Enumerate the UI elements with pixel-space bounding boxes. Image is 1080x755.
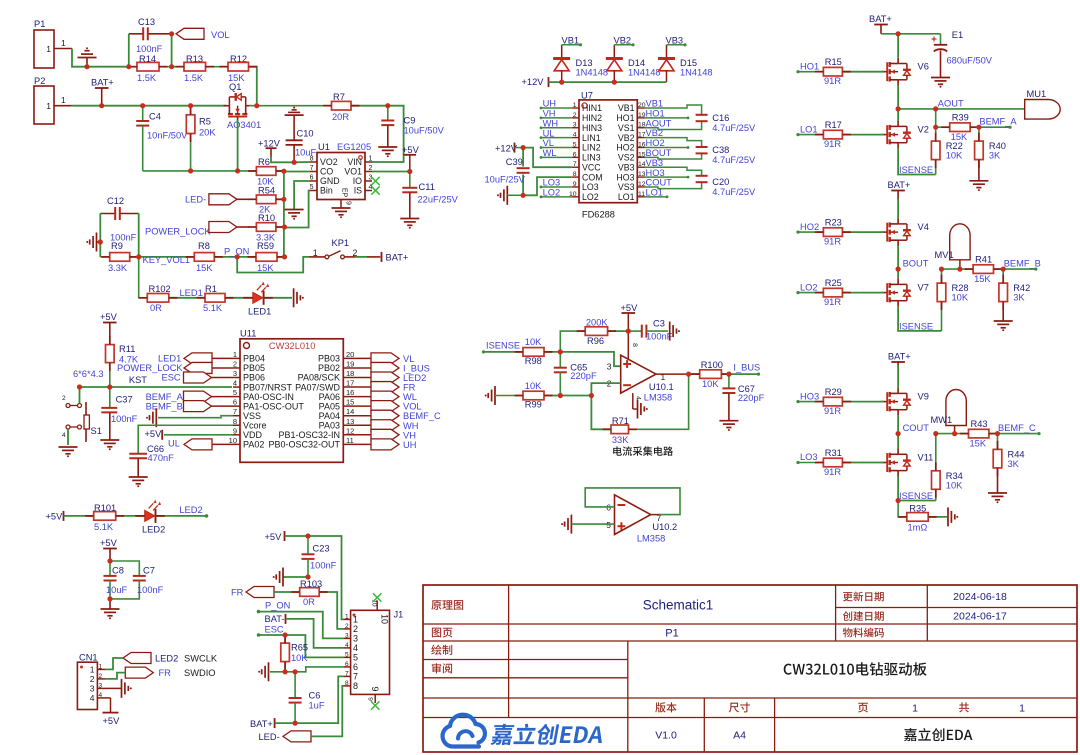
junction COUT node <box>897 433 899 435</box>
svg-text:+5V: +5V <box>265 532 283 542</box>
junction MV1 node <box>959 268 961 270</box>
wire V2 source to ISENSE <box>898 149 936 175</box>
svg-text:VH: VH <box>543 109 556 119</box>
svg-text:IS: IS <box>354 186 362 196</box>
resistor R96 (200K feedback) <box>560 331 585 352</box>
op-amp U10.2 output stub <box>651 514 660 516</box>
svg-text:1: 1 <box>345 613 349 620</box>
diode D15 1N4148 <box>658 57 675 60</box>
svg-text:10K: 10K <box>702 379 719 389</box>
resistor R39 15K <box>950 123 970 132</box>
wire KEY_VOL1 net <box>130 256 195 258</box>
wire ISENSE to R98 <box>484 351 524 353</box>
wire KST net <box>80 386 233 388</box>
svg-text:11: 11 <box>638 191 645 198</box>
junction C23 gnd node <box>307 576 309 578</box>
pin U11.14 PA04 <box>343 415 371 417</box>
svg-text:U10.2: U10.2 <box>652 522 677 532</box>
connector MW1 (motor W) <box>946 390 966 426</box>
svg-text:CN1: CN1 <box>79 653 98 663</box>
wire BAT+ to J1.7 <box>275 676 344 723</box>
resistor R42 3K <box>1002 269 1004 283</box>
net flag POWER_LOCK at U11 pin 2 <box>212 367 233 369</box>
svg-text:91R: 91R <box>824 406 841 416</box>
svg-text:1N4148: 1N4148 <box>680 67 713 77</box>
svg-text:R34: R34 <box>946 471 963 481</box>
svg-text:LED2: LED2 <box>155 654 178 664</box>
svg-text:LIN3: LIN3 <box>582 153 601 163</box>
svg-text:VB1: VB1 <box>618 103 635 113</box>
pin CN1.2 <box>97 678 105 680</box>
svg-text:BAT+: BAT+ <box>250 719 273 729</box>
pin J1.8 <box>343 685 350 687</box>
connector CN1 <box>77 662 97 709</box>
svg-text:V6: V6 <box>918 62 929 72</box>
svg-text:16: 16 <box>346 388 354 397</box>
resistor R99 <box>494 386 496 405</box>
svg-text:R71: R71 <box>612 416 629 426</box>
IC U11 CW32L010 <box>240 339 343 463</box>
svg-text:5: 5 <box>310 184 314 191</box>
svg-text:R15: R15 <box>825 57 842 67</box>
svg-text:2: 2 <box>345 623 349 630</box>
svg-text:P1: P1 <box>34 19 45 29</box>
net flag UL at U11 PA02 <box>212 443 233 445</box>
resistor R43 15K <box>969 429 989 438</box>
svg-text:5: 5 <box>345 651 349 658</box>
svg-text:VIN: VIN <box>347 157 362 167</box>
bottom rail (gate bias) <box>143 170 257 172</box>
svg-text:VDD: VDD <box>243 430 263 440</box>
net flag LED2 at CN1 <box>123 653 151 664</box>
svg-text:3K: 3K <box>1013 293 1025 303</box>
pin U11.17 PA07/SWD <box>343 386 371 388</box>
junction BAT+ node <box>101 105 103 107</box>
svg-text:3: 3 <box>99 682 103 689</box>
svg-text:VS3: VS3 <box>618 182 635 192</box>
svg-text:R103: R103 <box>300 579 322 589</box>
svg-text:680uF/50V: 680uF/50V <box>947 56 993 66</box>
svg-text:14: 14 <box>346 407 354 416</box>
capacitor C23 <box>307 536 309 554</box>
svg-text:20R: 20R <box>332 112 349 122</box>
junction C8/C7 top node <box>109 560 111 562</box>
net flag FR <box>371 382 399 393</box>
wire CN1.4 to +5V <box>105 697 111 699</box>
wire CN1.3 to gnd <box>105 687 121 689</box>
ground below C67 <box>719 420 738 422</box>
svg-text:ESC: ESC <box>265 625 284 635</box>
svg-text:470nF: 470nF <box>148 453 175 463</box>
svg-text:7: 7 <box>353 672 358 682</box>
svg-text:R65: R65 <box>291 643 308 653</box>
wire gnd to COM <box>523 177 572 195</box>
wire +12V to C10 node <box>271 157 294 163</box>
net flag VL <box>371 353 399 364</box>
svg-text:7: 7 <box>233 407 237 416</box>
wire BAT- to J1.4 <box>286 619 344 648</box>
wire +5V to J1.1 <box>285 536 344 619</box>
wire R15 to V6 gate <box>843 71 885 73</box>
svg-text:15K: 15K <box>974 274 991 284</box>
svg-text:4: 4 <box>233 379 237 388</box>
transistor Q1 AO3401 (PMOS) <box>224 93 252 123</box>
svg-text:PA1-OSC-OUT: PA1-OSC-OUT <box>243 401 304 411</box>
ground right of R35 <box>947 507 949 526</box>
pin U11.7 VSS <box>233 415 240 417</box>
svg-text:VB2: VB2 <box>618 133 635 143</box>
svg-text:10K: 10K <box>525 381 542 391</box>
svg-text:VB2: VB2 <box>614 35 632 45</box>
svg-text:10K: 10K <box>946 480 963 490</box>
pin U11.12 PB1-OSC32-IN <box>343 434 371 436</box>
diode D13 1N4148 <box>553 57 570 60</box>
svg-text:HO2: HO2 <box>646 138 665 148</box>
resistor R11 <box>106 345 115 363</box>
svg-text:BAT+: BAT+ <box>91 78 114 88</box>
svg-text:C20: C20 <box>712 177 729 187</box>
junction R42 node <box>1002 268 1004 270</box>
wire R8 to R59 <box>214 256 256 258</box>
net flag VH <box>371 429 399 440</box>
svg-text:91R: 91R <box>824 467 841 477</box>
wire rail to V4 drain <box>897 199 899 218</box>
transistor V4 (high side) <box>881 231 887 233</box>
svg-text:S1: S1 <box>91 426 102 436</box>
junction R10 node <box>283 226 285 228</box>
svg-text:KEY_VOL1: KEY_VOL1 <box>143 255 191 265</box>
junction Q1 drain node <box>256 105 258 107</box>
svg-text:BOUT: BOUT <box>903 259 929 269</box>
pin J1.5 <box>343 656 350 658</box>
svg-text:1.5K: 1.5K <box>184 73 204 83</box>
svg-text:BEMF_B: BEMF_B <box>1004 259 1041 269</box>
svg-text:C3: C3 <box>653 319 665 329</box>
wire AOUT to motor MU1 <box>898 108 1025 110</box>
junction R65 gnd node <box>284 671 286 673</box>
svg-text:LED2: LED2 <box>179 505 202 515</box>
power port +5V at U11 VDD <box>164 434 233 436</box>
resistor R59 <box>256 253 277 262</box>
resistor R54 <box>256 195 276 204</box>
net flag I_BUS <box>371 362 399 373</box>
svg-text:KST: KST <box>129 375 147 385</box>
junction C6 top node <box>294 671 296 673</box>
wire R1 to LED1 <box>225 297 253 299</box>
pin U7.17 VB2 <box>637 137 644 139</box>
capacitor C12 <box>100 213 115 215</box>
svg-text:10uF/50V: 10uF/50V <box>404 126 445 136</box>
junction C23 node <box>307 535 309 537</box>
svg-text:91R: 91R <box>824 297 841 307</box>
pin U11.16 PA06 <box>343 396 371 398</box>
pin U7.20 VB1 <box>637 107 644 109</box>
svg-text:Schematic1: Schematic1 <box>643 598 714 613</box>
wire P_ON to KP1 <box>237 257 309 273</box>
capacitor C11 <box>409 172 411 188</box>
power port BAT+ at KP1 <box>367 256 380 258</box>
svg-text:P_ON: P_ON <box>265 601 290 611</box>
ground right of LED1 <box>293 288 295 307</box>
ground below E1 <box>931 77 950 79</box>
ground below C8 <box>109 599 111 609</box>
wire C12 right leg <box>138 214 140 257</box>
svg-text:3: 3 <box>353 634 358 644</box>
resistor R14 <box>137 62 159 71</box>
svg-text:VB3: VB3 <box>618 162 635 172</box>
transistor V11 (low side) <box>881 462 887 464</box>
connector P1 <box>34 30 54 68</box>
transistor V2 (low side) <box>881 134 887 136</box>
pin U11.2 PB05 <box>233 367 240 369</box>
wire +12V diode rail <box>549 81 667 83</box>
wire R102 to R1 <box>169 297 205 299</box>
junction gnd tee <box>99 241 101 243</box>
svg-text:220pF: 220pF <box>570 371 597 381</box>
wire R59 to feedback <box>277 256 285 258</box>
junction R5 node <box>190 105 192 107</box>
svg-text:17: 17 <box>346 379 354 388</box>
wire V11 drain to out <box>897 434 899 449</box>
ground below C66 <box>129 476 148 478</box>
capacitor C4 <box>142 106 144 121</box>
wire COUT row <box>936 433 969 435</box>
svg-text:VL: VL <box>403 354 414 364</box>
junction R22 node <box>935 126 937 128</box>
svg-text:BEMF_A: BEMF_A <box>146 392 184 402</box>
junction R28 node <box>940 268 942 270</box>
svg-text:BAT-: BAT- <box>265 614 285 624</box>
pin U7.10 LO2 <box>572 196 579 198</box>
pin U7.15 VS2 <box>637 156 644 158</box>
svg-text:C9: C9 <box>404 116 416 126</box>
resistor R28 10K <box>941 269 943 283</box>
pin J1.3 <box>343 637 350 639</box>
svg-text:10uF/25V: 10uF/25V <box>485 175 526 185</box>
svg-text:R13: R13 <box>186 54 203 64</box>
wire R31 to V11 gate <box>843 462 885 464</box>
svg-text:R54: R54 <box>258 186 275 196</box>
wire feedback vertical <box>283 171 285 257</box>
pin J1.4 <box>343 647 350 649</box>
wire S1 to gnd <box>67 429 69 445</box>
wire KST to S1 <box>79 387 81 404</box>
pin CN1.1 <box>97 668 105 670</box>
wire U1 GND down <box>294 181 310 209</box>
svg-text:R43: R43 <box>971 419 988 429</box>
svg-text:15: 15 <box>346 398 354 407</box>
svg-text:20: 20 <box>346 350 354 359</box>
svg-text:R40: R40 <box>989 141 1006 151</box>
svg-text:C11: C11 <box>419 182 435 192</box>
wire U10.1 output <box>689 373 700 375</box>
svg-text:3K: 3K <box>989 151 1001 161</box>
svg-text:1.5K: 1.5K <box>137 73 157 83</box>
svg-text:6: 6 <box>573 151 577 158</box>
wire R103 to J1.2 <box>319 592 343 629</box>
svg-text:VL: VL <box>543 138 554 148</box>
ground left of C23 <box>282 568 284 587</box>
pin U7.2 HIN2 <box>572 117 579 119</box>
svg-text:100nF: 100nF <box>646 331 673 341</box>
wire CN1.2 to FR flag <box>105 673 125 679</box>
svg-text:HO3: HO3 <box>616 172 634 182</box>
svg-text:U1: U1 <box>318 142 330 152</box>
wire R7 to VIN <box>351 106 404 162</box>
pin U1.5 Bin <box>310 190 317 192</box>
junction C6 bottom node <box>294 722 296 724</box>
svg-text:BEMF_B: BEMF_B <box>146 401 183 411</box>
ground below R40 <box>969 180 988 182</box>
capacitor C20 <box>696 175 708 177</box>
capacitor C8 <box>109 561 111 575</box>
resistor R5 <box>190 106 192 115</box>
connector J1 <box>351 610 390 694</box>
svg-text:EP: EP <box>341 188 348 198</box>
pin U11.20 PB03 <box>343 357 371 359</box>
svg-text:VS2: VS2 <box>618 153 635 163</box>
wire KP1 to BAT+ <box>355 256 367 258</box>
svg-text:VB1: VB1 <box>646 99 664 109</box>
svg-text:R9: R9 <box>111 241 123 251</box>
svg-text:UL: UL <box>543 128 555 138</box>
svg-text:MW1: MW1 <box>931 415 953 425</box>
junction ESC/R65 node <box>284 634 286 636</box>
resistor R98 <box>523 348 544 357</box>
svg-text:0R: 0R <box>150 303 162 313</box>
pin J1.10 (NC) <box>376 601 378 611</box>
svg-text:PB06: PB06 <box>243 373 265 383</box>
svg-text:ESC: ESC <box>162 373 181 383</box>
wire V6 source to out <box>897 86 899 109</box>
svg-text:HO2: HO2 <box>616 143 634 153</box>
svg-text:3.3K: 3.3K <box>108 263 128 273</box>
svg-text:VOL: VOL <box>211 30 230 40</box>
svg-text:LED2: LED2 <box>403 373 426 383</box>
svg-text:R99: R99 <box>525 400 542 410</box>
pin U11.6 PA1-OSC-OUT <box>233 405 240 407</box>
svg-text:HIN1: HIN1 <box>582 103 602 113</box>
resistor R22 10K <box>935 127 937 141</box>
wire node to pin3 <box>560 352 620 366</box>
svg-text:V4: V4 <box>918 222 929 232</box>
junction +5V/C11 node <box>409 170 411 172</box>
capacitor C66 at Vcore <box>138 425 233 453</box>
svg-text:2: 2 <box>353 624 358 634</box>
svg-text:PB05: PB05 <box>243 363 265 373</box>
wire R71 to node <box>591 396 611 430</box>
wire R96 to +5V node <box>608 330 629 332</box>
svg-text:4: 4 <box>62 432 66 439</box>
svg-text:2: 2 <box>369 165 373 172</box>
svg-text:Bin: Bin <box>320 186 333 196</box>
svg-text:1: 1 <box>912 703 918 715</box>
svg-text:R59: R59 <box>257 241 274 251</box>
capacitor C6 <box>294 672 296 698</box>
svg-text:PA05: PA05 <box>319 401 340 411</box>
svg-text:91R: 91R <box>824 236 841 246</box>
ground right of C3 <box>669 322 671 341</box>
svg-text:2: 2 <box>573 112 577 119</box>
junction C13 left node <box>128 66 130 68</box>
svg-text:C12: C12 <box>107 196 124 206</box>
junction R71/pin2 node <box>590 394 592 396</box>
capacitor E1 (electrolytic 680uF/50V) <box>898 33 940 35</box>
svg-text:VB3: VB3 <box>646 158 664 168</box>
junction gnd junction <box>86 66 88 68</box>
resistor R35 1mOhm shunt <box>898 501 907 517</box>
pin U7.18 VS1 <box>637 127 644 129</box>
svg-text:VO1: VO1 <box>344 167 362 177</box>
wire R100 to I_BUS <box>721 373 758 375</box>
svg-text:R12: R12 <box>230 54 247 64</box>
resistor R102 <box>147 294 169 303</box>
pin U11.19 PB02 <box>343 367 371 369</box>
resistor R9 <box>110 253 130 262</box>
svg-text:22uF/25V: 22uF/25V <box>418 195 459 205</box>
pin U11.10 PA02 <box>233 443 240 445</box>
svg-text:5: 5 <box>353 653 358 663</box>
ground above C10 <box>293 107 295 109</box>
svg-text:6: 6 <box>310 175 314 182</box>
resistor R34 10K <box>935 434 937 471</box>
pin U11.9 VDD <box>233 434 240 436</box>
junction D14 anode node <box>613 81 615 83</box>
junction BAT+/E1 node <box>897 33 899 35</box>
pin U7.4 LIN1 <box>572 137 579 139</box>
svg-text:LO2: LO2 <box>582 192 599 202</box>
ground below U1 EP <box>332 207 351 209</box>
svg-text:GND: GND <box>320 176 340 186</box>
pin U7.3 HIN3 <box>572 127 579 129</box>
svg-text:1N4148: 1N4148 <box>576 67 609 77</box>
svg-text:4: 4 <box>90 693 95 703</box>
LED LED2 <box>145 510 155 521</box>
svg-text:8: 8 <box>345 680 349 687</box>
pin U7.19 HO1 <box>637 117 644 119</box>
pin U1.7 CO <box>310 171 317 173</box>
svg-text:BEMF_C: BEMF_C <box>998 423 1036 433</box>
connector MV1 (motor V) <box>950 224 970 260</box>
wire R54 to feedback node <box>276 198 284 200</box>
U10.2 feedback loop wire <box>585 488 680 515</box>
junction BOUT node <box>897 268 899 270</box>
svg-text:10K: 10K <box>946 151 963 161</box>
svg-text:33K: 33K <box>612 435 629 445</box>
svg-text:+5V: +5V <box>402 145 420 155</box>
wire BAT+ main rail <box>71 105 226 107</box>
svg-text:C39: C39 <box>506 157 523 167</box>
svg-text:9: 9 <box>233 426 237 435</box>
ground below C11 <box>400 218 419 220</box>
svg-text:7: 7 <box>573 161 577 168</box>
resistor R13 <box>159 66 184 68</box>
IC U1 EG1205 <box>317 153 365 200</box>
svg-text:100nF: 100nF <box>111 414 138 424</box>
pin U7.1 HIN1 <box>572 107 579 109</box>
svg-text:5.1K: 5.1K <box>94 522 114 532</box>
svg-text:3: 3 <box>573 122 577 129</box>
net flag BEMF_A at U11 <box>212 396 234 398</box>
resistor R71 (feedback 33K) <box>629 374 689 429</box>
switch S1 (tact) <box>66 404 70 408</box>
resistor R1 <box>205 294 225 303</box>
svg-text:LO3: LO3 <box>582 182 599 192</box>
svg-text:AO3401: AO3401 <box>227 120 261 130</box>
pin U7.14 VB3 <box>637 166 644 168</box>
capacitor C13 <box>129 33 143 35</box>
svg-text:Q1: Q1 <box>229 82 241 92</box>
